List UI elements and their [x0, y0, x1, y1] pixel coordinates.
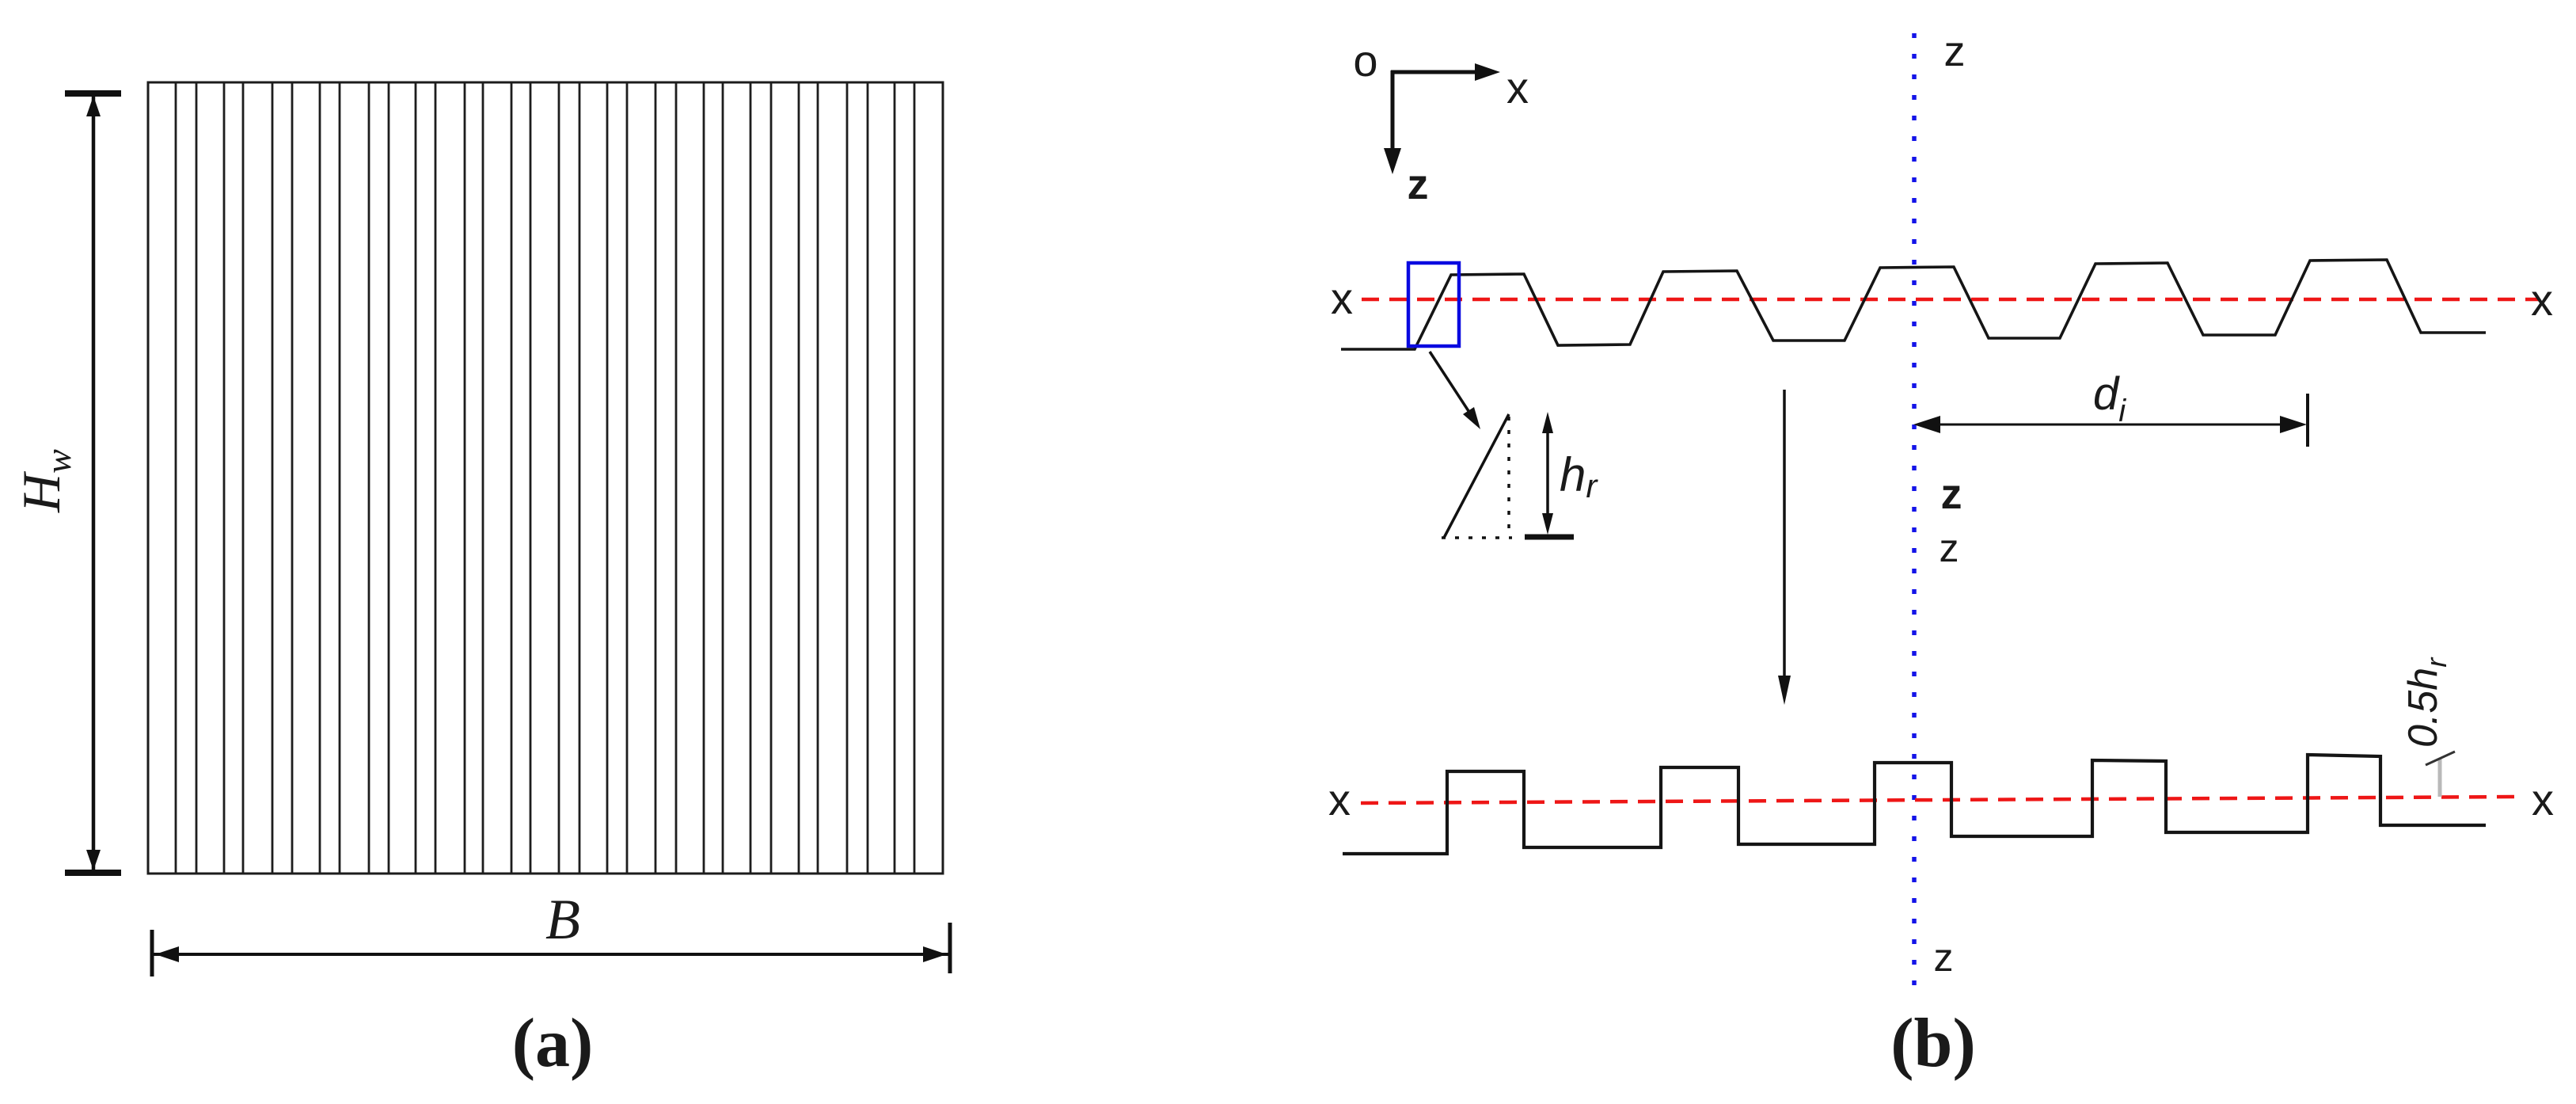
- section line z-z (blue dotted vertical): [1912, 33, 1917, 995]
- trapezoidal corrugation profile (upper): [1341, 260, 2486, 349]
- leader arrow from detail box: [1430, 352, 1480, 429]
- svg-text:B: B: [545, 888, 580, 951]
- svg-text:(a): (a): [512, 1005, 594, 1082]
- label x right of lower axis: [2532, 775, 2554, 824]
- label z mid upper (bold): [1941, 470, 1962, 518]
- svg-text:x: x: [1328, 775, 1351, 824]
- label o (origin): [1353, 36, 1377, 86]
- svg-text:z: z: [1944, 28, 1966, 75]
- label 0.5h_r (rotated): [2400, 657, 2453, 748]
- dimension B right arrowhead: [923, 946, 947, 962]
- dimension d_i line with arrowheads: [1913, 416, 2307, 433]
- dimension H_w top tick: [65, 90, 121, 97]
- svg-text:(b): (b): [1890, 1005, 1976, 1082]
- dimension h_r base bar: [1525, 535, 1574, 540]
- svg-text:di: di: [2093, 368, 2126, 428]
- neutral axis x-x lower (red dashed): [1361, 797, 2522, 803]
- svg-text:x: x: [2531, 275, 2553, 325]
- dimension h_r double arrow: [1542, 412, 1553, 535]
- detail corrugation incline (hypotenuse): [1444, 414, 1509, 538]
- caption (a): [512, 1005, 594, 1082]
- label x left of upper axis: [1331, 273, 1353, 323]
- label x left of lower axis: [1328, 775, 1351, 824]
- dimension 0.5h_r (small, light): [2426, 752, 2455, 797]
- label x right of upper axis: [2531, 275, 2553, 325]
- label H_w: [11, 449, 78, 513]
- dimension B right tick: [948, 923, 952, 973]
- dimension B horizontal line: [153, 953, 950, 956]
- svg-text:z: z: [1408, 161, 1429, 208]
- svg-text:x: x: [1506, 63, 1529, 112]
- svg-text:Hw: Hw: [11, 449, 78, 513]
- caption (b): [1890, 1005, 1976, 1082]
- svg-text:z: z: [1940, 526, 1959, 570]
- label z mid lower: [1940, 526, 1959, 570]
- rectangular (idealized) corrugation profile (lower): [1343, 755, 2486, 854]
- neutral axis x-x upper (red dashed): [1362, 298, 2540, 302]
- label z bottom of section line: [1934, 935, 1954, 980]
- svg-text:z: z: [1934, 935, 1954, 980]
- dimension B left arrowhead: [155, 946, 179, 962]
- detail zoom box (blue): [1408, 263, 1459, 346]
- mapping arrow (long vertical): [1778, 390, 1791, 705]
- dimension H_w bottom tick: [65, 870, 121, 876]
- dimension H_w bottom arrowhead: [86, 850, 101, 870]
- label x (axis): [1506, 63, 1529, 112]
- svg-text:0.5hr: 0.5hr: [2400, 657, 2453, 748]
- label z top of section line: [1944, 28, 1966, 75]
- web plate outline rectangle: [148, 82, 943, 874]
- dimension B left tick: [150, 930, 154, 976]
- svg-text:hr: hr: [1560, 448, 1598, 504]
- label d_i: [2093, 368, 2126, 428]
- dimension H_w top arrowhead: [86, 96, 101, 116]
- dimension d_i right extension tick: [2306, 394, 2309, 447]
- label z (axis): [1408, 161, 1429, 208]
- coordinate axes o-x-z: [1384, 63, 1500, 174]
- web plate corrugation fold lines: [176, 82, 914, 874]
- svg-text:o: o: [1353, 36, 1377, 86]
- label B: [545, 888, 580, 951]
- svg-text:x: x: [1331, 273, 1353, 323]
- svg-text:x: x: [2532, 775, 2554, 824]
- detail dotted horizontal leg: [1442, 536, 1512, 539]
- detail dotted vertical leg: [1507, 417, 1510, 535]
- svg-text:z: z: [1941, 470, 1962, 518]
- label h_r: [1560, 448, 1598, 504]
- dimension H_w vertical line: [92, 94, 96, 873]
